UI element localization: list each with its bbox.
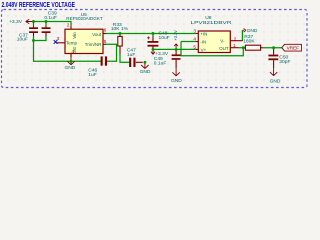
svg-text:1uF: 1uF <box>127 52 135 58</box>
svg-text:Vin: Vin <box>72 32 77 39</box>
svg-text:+IN: +IN <box>200 32 207 37</box>
svg-text:GND: GND <box>171 78 182 84</box>
svg-text:+3.3V: +3.3V <box>9 19 23 25</box>
svg-text:10uF: 10uF <box>17 37 28 43</box>
svg-text:0.1uF: 0.1uF <box>44 15 57 21</box>
svg-text:30pF: 30pF <box>279 59 290 65</box>
svg-text:+3.3V: +3.3V <box>173 30 179 41</box>
svg-text:5: 5 <box>193 44 196 49</box>
svg-text:0.1uF: 0.1uF <box>154 61 167 67</box>
svg-text:2: 2 <box>234 36 237 41</box>
svg-text:OUT: OUT <box>219 46 229 51</box>
svg-text:GND: GND <box>247 28 258 34</box>
svg-text:3: 3 <box>193 29 196 34</box>
svg-text:GND: GND <box>270 78 281 84</box>
svg-text:Vout: Vout <box>92 32 102 37</box>
svg-text:V+: V+ <box>201 47 207 52</box>
svg-text:160K: 160K <box>243 38 255 44</box>
svg-text:3: 3 <box>57 36 60 41</box>
svg-text:VREF: VREF <box>287 46 300 52</box>
svg-text:GND: GND <box>140 69 151 75</box>
svg-text:GND: GND <box>64 65 75 71</box>
svg-text:2.048V REFERENCE VOLTAGE: 2.048V REFERENCE VOLTAGE <box>2 2 76 9</box>
svg-text:4: 4 <box>193 37 196 42</box>
svg-text:4: 4 <box>71 49 74 54</box>
svg-text:10uF: 10uF <box>159 35 170 41</box>
svg-text:LPV821DBVR: LPV821DBVR <box>191 20 233 26</box>
svg-text:Trim/NR: Trim/NR <box>85 42 102 47</box>
svg-text:V-: V- <box>220 38 225 43</box>
svg-text:REF5020AIDGKT: REF5020AIDGKT <box>66 16 103 22</box>
svg-text:-IN: -IN <box>200 40 206 45</box>
svg-text:6: 6 <box>104 28 107 33</box>
svg-text:1: 1 <box>233 43 236 48</box>
svg-text:10K 1%: 10K 1% <box>111 26 129 32</box>
svg-text:5: 5 <box>104 39 107 44</box>
svg-text:1uF: 1uF <box>88 72 96 78</box>
svg-text:Temp: Temp <box>66 41 78 46</box>
svg-text:2: 2 <box>67 23 70 28</box>
